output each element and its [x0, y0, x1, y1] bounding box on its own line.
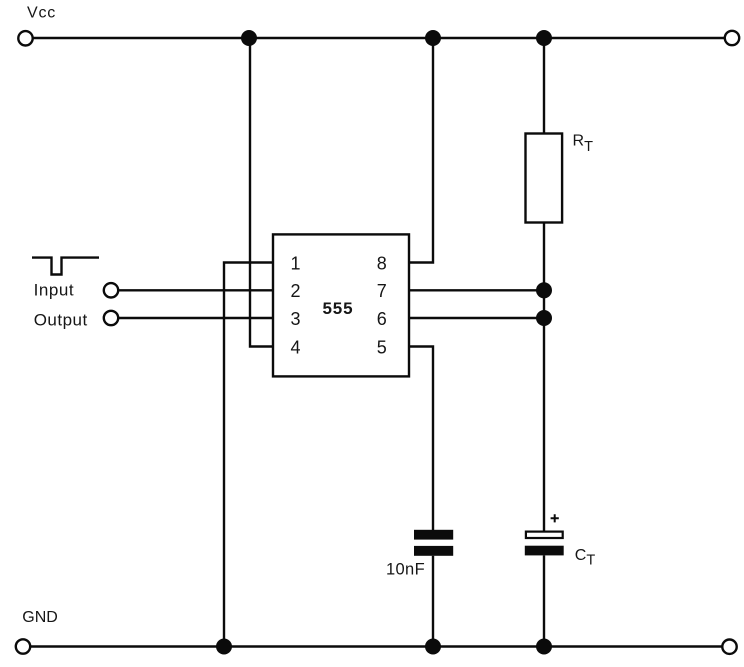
capacitor CT bottom plate — [525, 546, 564, 556]
wire pin6 to node B — [409, 317, 544, 319]
wire Input to pin2 — [119, 289, 274, 291]
wire capacitor 10nF to GND rail — [432, 556, 434, 647]
terminal Output — [104, 311, 118, 325]
trigger pulse symbol — [32, 258, 99, 275]
wire Vcc rail to resistor RT — [543, 38, 545, 134]
terminal Vcc left — [18, 31, 32, 45]
svg-text:8: 8 — [377, 254, 387, 274]
node junction Vcc rail x433 — [425, 30, 441, 46]
capacitor 10nF top plate — [414, 530, 453, 540]
wire resistor RT to capacitor CT — [543, 223, 545, 531]
svg-text:3: 3 — [291, 309, 301, 329]
svg-text:Input: Input — [34, 280, 75, 299]
svg-text:555: 555 — [322, 299, 353, 318]
svg-text:2: 2 — [291, 281, 301, 301]
svg-text:7: 7 — [377, 281, 387, 301]
svg-text:1: 1 — [291, 254, 301, 274]
svg-text:6: 6 — [377, 309, 387, 329]
svg-text:Vcc: Vcc — [27, 5, 56, 22]
resistor RT body — [526, 134, 563, 223]
node junction GND rail x544 — [536, 639, 552, 655]
capacitor 10nF bottom plate — [414, 546, 453, 556]
wire pin4 to Vcc rail — [250, 38, 273, 347]
svg-text:5: 5 — [377, 337, 387, 357]
terminal Input — [104, 283, 118, 297]
svg-text:4: 4 — [291, 337, 301, 357]
wire pin5 to capacitor 10nF — [409, 347, 433, 531]
wire pin1 to GND rail — [224, 263, 273, 647]
terminal GND left — [16, 639, 30, 653]
terminal GND right — [722, 640, 736, 654]
node junction Vcc rail x249 — [241, 30, 257, 46]
capacitor CT polarity plus sign — [551, 514, 559, 522]
capacitor CT top plate (positive, hollow) — [526, 532, 563, 538]
svg-text:GND: GND — [22, 609, 58, 626]
wire pin8 to Vcc rail — [409, 38, 433, 263]
svg-text:Output: Output — [34, 311, 88, 330]
wire capacitor CT to GND rail — [543, 556, 545, 647]
node junction GND rail x224 — [216, 639, 232, 655]
wire GND rail — [31, 645, 722, 647]
wire pin7 to node A — [409, 289, 544, 291]
node A junction pin7 x544 — [536, 282, 552, 298]
node B junction pin6 x544 — [536, 310, 552, 326]
wire Vcc rail — [34, 37, 725, 39]
node junction Vcc rail x544 — [536, 30, 552, 46]
wire Output to pin3 — [119, 317, 274, 319]
op-amp U1 555 IC body — [273, 234, 409, 376]
svg-text:10nF: 10nF — [386, 561, 425, 579]
node junction GND rail x433 — [425, 639, 441, 655]
terminal Vcc right — [725, 31, 739, 45]
